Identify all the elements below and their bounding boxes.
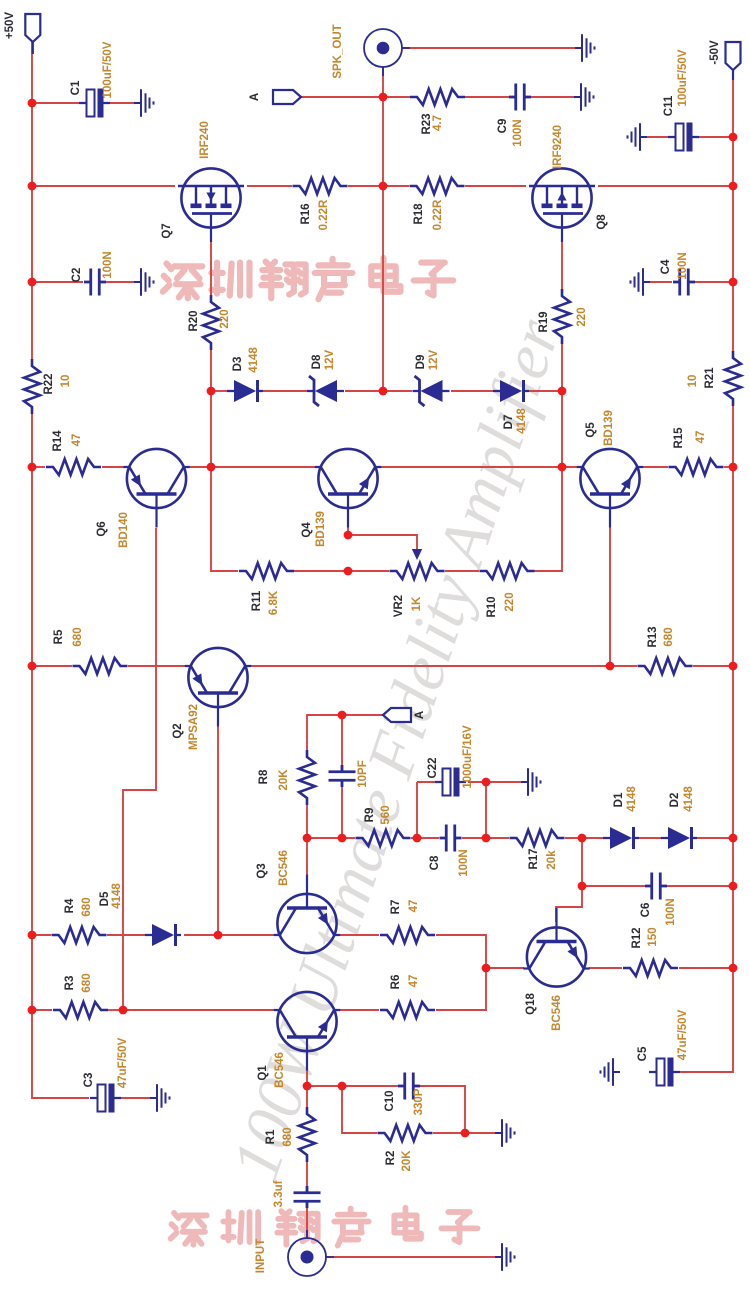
svg-text:12V: 12V xyxy=(428,349,440,370)
wire R8 top / node A2 xyxy=(307,715,383,750)
svg-text:R19: R19 xyxy=(538,311,550,332)
resistor R13 xyxy=(638,658,693,674)
MOSFET Q8 xyxy=(529,168,595,242)
junction xyxy=(28,278,37,287)
wire xyxy=(411,837,439,839)
svg-text:R11: R11 xyxy=(251,590,263,611)
wire xyxy=(32,466,45,468)
capacitor C7 input 3.3uf xyxy=(294,1186,321,1208)
svg-text:330P: 330P xyxy=(413,1088,425,1115)
svg-text:10: 10 xyxy=(687,375,699,388)
svg-text:R5: R5 xyxy=(53,629,65,644)
svg-text:C8: C8 xyxy=(429,855,441,870)
junction xyxy=(338,711,347,720)
wire xyxy=(417,781,436,783)
wire xyxy=(451,390,493,392)
diode D5 xyxy=(145,924,181,946)
svg-text:D2: D2 xyxy=(669,793,681,808)
port A (lower) xyxy=(383,708,411,722)
svg-text:4148: 4148 xyxy=(516,408,528,434)
svg-text:D7: D7 xyxy=(503,415,515,430)
resistor R6 xyxy=(380,1002,435,1018)
junction xyxy=(729,278,738,287)
junction xyxy=(28,1006,37,1015)
wire xyxy=(32,1009,52,1011)
wire xyxy=(306,1057,308,1107)
wire xyxy=(486,781,528,783)
wire Q6 base to node xyxy=(123,528,156,1010)
svg-text:BC546: BC546 xyxy=(551,995,563,1031)
junction xyxy=(338,1082,347,1091)
junction xyxy=(606,662,615,671)
wire xyxy=(445,570,479,572)
ground near C22 xyxy=(521,768,541,796)
wire xyxy=(211,390,227,392)
svg-text:20K: 20K xyxy=(401,1150,413,1172)
resistor R5 xyxy=(73,658,128,674)
svg-text:680: 680 xyxy=(282,1127,294,1146)
svg-text:BD139: BD139 xyxy=(603,410,615,446)
capacitor C1 xyxy=(79,89,110,118)
svg-text:47: 47 xyxy=(695,431,707,444)
wire xyxy=(416,782,418,838)
wire xyxy=(247,185,292,187)
svg-text:Q5: Q5 xyxy=(585,422,597,438)
diode D1 xyxy=(603,827,639,849)
svg-text:150: 150 xyxy=(647,927,659,946)
wire xyxy=(465,185,526,187)
transistor Q6 xyxy=(123,449,189,528)
svg-text:BD140: BD140 xyxy=(118,512,130,548)
zener diode D8 xyxy=(307,376,344,406)
svg-text:C22: C22 xyxy=(427,757,439,778)
transistor Q1 xyxy=(274,992,340,1071)
svg-text:INPUT: INPUT xyxy=(255,1239,267,1274)
wire xyxy=(341,715,343,765)
svg-text:R4: R4 xyxy=(64,898,76,913)
zener diode D9 xyxy=(413,376,450,406)
junction xyxy=(119,1006,128,1015)
capacitor C22 xyxy=(435,768,466,797)
diode D3 xyxy=(227,380,263,402)
transistor Q3 xyxy=(274,875,340,954)
capacitor C3 xyxy=(90,1084,121,1113)
svg-text:R22: R22 xyxy=(43,373,55,394)
wire INPUT to ground xyxy=(325,1256,498,1258)
svg-text:Q8: Q8 xyxy=(596,214,608,230)
resistor R22 xyxy=(24,359,40,414)
svg-text:Q3: Q3 xyxy=(256,863,268,878)
svg-text:C5: C5 xyxy=(637,1046,649,1061)
svg-text:47uF/50V: 47uF/50V xyxy=(117,1037,129,1088)
svg-text:D9: D9 xyxy=(415,355,427,370)
svg-text:220: 220 xyxy=(504,592,516,611)
resistor R3 xyxy=(53,1002,108,1018)
svg-text:47: 47 xyxy=(71,434,83,447)
resistor R1 xyxy=(299,1107,315,1162)
junction xyxy=(303,1082,312,1091)
wire xyxy=(342,1086,377,1133)
svg-text:D1: D1 xyxy=(613,792,625,807)
svg-text:R20: R20 xyxy=(188,310,200,331)
wire xyxy=(184,934,275,936)
wire xyxy=(697,837,733,839)
svg-text:680: 680 xyxy=(72,627,84,646)
wire xyxy=(436,935,486,1010)
resistor VR2 xyxy=(390,563,445,579)
wire xyxy=(110,102,141,104)
svg-text:4.7: 4.7 xyxy=(432,115,444,131)
wire xyxy=(106,281,141,283)
svg-text:Q4: Q4 xyxy=(301,522,313,538)
svg-text:1000uF/16V: 1000uF/16V xyxy=(462,725,474,789)
wire xyxy=(732,70,734,351)
capacitor C9 xyxy=(509,84,531,111)
svg-text:R8: R8 xyxy=(258,769,270,784)
junction xyxy=(578,882,587,891)
wire xyxy=(561,242,563,289)
wire xyxy=(345,390,412,392)
wire xyxy=(589,967,622,969)
wire xyxy=(306,838,308,881)
svg-text:C2: C2 xyxy=(71,268,83,283)
junction xyxy=(482,964,491,973)
resistor R18 xyxy=(410,178,465,194)
resistor R16 xyxy=(293,178,348,194)
junction xyxy=(461,1129,470,1138)
svg-text:R17: R17 xyxy=(528,848,540,869)
svg-text:-50V: -50V xyxy=(709,40,721,65)
svg-text:Q1: Q1 xyxy=(257,1065,269,1081)
wire xyxy=(534,344,562,571)
capacitor C8 xyxy=(440,825,462,852)
resistor R2 xyxy=(378,1125,433,1141)
svg-text:C3: C3 xyxy=(83,1073,95,1088)
transistor Q4 xyxy=(315,449,381,528)
wire xyxy=(32,281,83,283)
svg-text:R3: R3 xyxy=(64,976,76,991)
wire xyxy=(341,787,343,838)
ground near C11 xyxy=(628,123,648,151)
svg-text:47: 47 xyxy=(408,975,420,988)
svg-text:C11: C11 xyxy=(663,95,675,116)
resistor R19 xyxy=(554,289,570,344)
junction xyxy=(558,387,567,396)
port A (top) xyxy=(273,90,301,104)
wire VR2 wiper xyxy=(348,535,417,552)
power terminal +50V xyxy=(25,14,40,54)
svg-text:C10: C10 xyxy=(384,1090,396,1111)
svg-text:D8: D8 xyxy=(311,354,323,369)
svg-text:C6: C6 xyxy=(640,903,652,918)
svg-text:R7: R7 xyxy=(390,900,402,915)
svg-text:220: 220 xyxy=(219,309,231,328)
svg-text:4148: 4148 xyxy=(111,883,123,909)
resistor R14 xyxy=(46,459,101,475)
wire xyxy=(639,837,661,839)
svg-text:20k: 20k xyxy=(546,850,558,870)
wire xyxy=(189,466,316,468)
svg-text:IRF9240: IRF9240 xyxy=(552,125,564,169)
svg-text:R1: R1 xyxy=(265,1129,277,1144)
resistor R21 xyxy=(725,351,741,406)
svg-text:C9: C9 xyxy=(497,119,509,134)
junction xyxy=(344,567,353,576)
wire xyxy=(468,781,486,783)
capacitor C10 xyxy=(398,1073,420,1100)
junction xyxy=(28,99,37,108)
junction xyxy=(214,931,223,940)
svg-text:4148: 4148 xyxy=(626,786,638,812)
resistor R8 xyxy=(299,750,315,805)
svg-text:680: 680 xyxy=(81,973,93,992)
svg-text:R9: R9 xyxy=(364,808,376,823)
resistor R17 xyxy=(510,830,565,846)
wire xyxy=(128,665,186,667)
wire Q5 base down xyxy=(609,522,611,666)
resistor R11 xyxy=(239,563,294,579)
wire xyxy=(340,934,379,936)
transistor Q18 xyxy=(523,908,589,987)
resistor R4 xyxy=(52,927,107,943)
wire xyxy=(465,96,509,98)
svg-text:BC546: BC546 xyxy=(278,850,290,886)
svg-text:100N: 100N xyxy=(102,251,114,279)
svg-text:680: 680 xyxy=(663,627,675,646)
svg-text:C1: C1 xyxy=(70,80,82,95)
transistor Q2 xyxy=(185,648,251,727)
transistor Q5 xyxy=(577,449,643,528)
wire xyxy=(102,466,124,468)
capacitor C11 xyxy=(668,123,699,152)
junction xyxy=(482,778,491,787)
wire xyxy=(486,967,524,969)
svg-text:BD139: BD139 xyxy=(315,511,327,547)
svg-text:4148: 4148 xyxy=(248,347,260,373)
svg-text:A: A xyxy=(414,711,426,719)
svg-text:C4: C4 xyxy=(660,259,672,274)
wire xyxy=(485,782,487,838)
VR2 wiper arrow xyxy=(412,549,422,560)
resistor R7 xyxy=(380,927,435,943)
svg-text:Q6: Q6 xyxy=(96,521,108,536)
wire xyxy=(32,102,79,104)
wire xyxy=(121,1097,157,1099)
svg-text:1K: 1K xyxy=(411,596,423,611)
resistor R20 xyxy=(203,295,219,350)
wire xyxy=(420,1086,465,1133)
connector SPK_OUT xyxy=(364,29,410,76)
wire xyxy=(211,350,238,571)
svg-text:47uF/50V: 47uF/50V xyxy=(677,1009,689,1060)
ground near SPK_OUT xyxy=(575,34,595,62)
wire xyxy=(306,1208,308,1239)
wire SPK_OUT to ground xyxy=(401,47,582,49)
wire xyxy=(306,805,308,838)
svg-text:R10: R10 xyxy=(486,596,498,617)
junction xyxy=(413,834,422,843)
wire xyxy=(294,570,389,572)
wire xyxy=(433,1132,502,1134)
svg-text:220: 220 xyxy=(576,307,588,326)
wire Q18 base up xyxy=(556,886,582,922)
junction xyxy=(729,133,738,142)
wire xyxy=(340,1009,379,1011)
svg-text:4148: 4148 xyxy=(683,786,695,812)
power terminal -50V xyxy=(726,42,741,80)
wire xyxy=(695,281,733,283)
wire xyxy=(667,885,733,887)
svg-text:10: 10 xyxy=(60,375,72,388)
junction xyxy=(207,387,216,396)
wire xyxy=(108,1009,123,1011)
wire xyxy=(123,1009,275,1011)
ground near C2 xyxy=(134,268,154,296)
svg-text:+50V: +50V xyxy=(4,12,16,40)
wire Q2 base down xyxy=(217,708,219,935)
wire xyxy=(307,1085,398,1087)
wire xyxy=(307,837,355,839)
junction xyxy=(729,662,738,671)
junction xyxy=(207,463,216,472)
svg-text:D3: D3 xyxy=(232,357,244,372)
wire xyxy=(699,136,733,138)
svg-text:R15: R15 xyxy=(673,427,685,449)
junction xyxy=(338,834,347,843)
svg-text:A: A xyxy=(249,93,261,101)
junction xyxy=(28,463,37,472)
junction xyxy=(303,834,312,843)
svg-text:6.8K: 6.8K xyxy=(268,590,280,615)
capacitor C6 xyxy=(645,873,667,900)
wire xyxy=(32,665,72,667)
junction xyxy=(482,834,491,843)
wire node A to output rail xyxy=(301,96,410,98)
junction xyxy=(28,662,37,671)
svg-text:100uF/50V: 100uF/50V xyxy=(677,49,689,106)
wire xyxy=(531,96,581,98)
svg-text:100N: 100N xyxy=(458,849,470,877)
svg-text:Q2: Q2 xyxy=(172,723,184,738)
wire xyxy=(724,466,733,468)
svg-text:R2: R2 xyxy=(385,1151,397,1166)
junction xyxy=(28,931,37,940)
svg-text:R21: R21 xyxy=(704,367,716,389)
wire xyxy=(250,665,637,667)
ground near C9 xyxy=(574,83,594,111)
svg-text:R14: R14 xyxy=(52,430,64,452)
wire xyxy=(32,934,51,936)
svg-text:100N: 100N xyxy=(512,119,524,147)
junction xyxy=(729,182,738,191)
junction xyxy=(729,964,738,973)
capacitor C4 xyxy=(673,269,695,296)
junction xyxy=(28,182,37,191)
junction xyxy=(379,387,388,396)
svg-text:R12: R12 xyxy=(631,927,643,948)
wire xyxy=(680,406,733,1072)
resistor R10 xyxy=(480,563,535,579)
svg-text:VR2: VR2 xyxy=(393,595,405,617)
wire xyxy=(582,838,645,886)
MOSFET Q7 xyxy=(178,168,244,242)
wire xyxy=(679,967,733,969)
resistor R15 xyxy=(669,459,724,475)
wire xyxy=(347,522,349,535)
wire xyxy=(381,466,577,468)
wire xyxy=(565,837,603,839)
svg-text:R16: R16 xyxy=(300,203,312,224)
junction xyxy=(379,93,388,102)
capacitor C 10PF xyxy=(329,765,356,787)
diode D2 xyxy=(661,827,697,849)
wire xyxy=(642,466,668,468)
wire xyxy=(306,1162,308,1186)
junction xyxy=(344,531,353,540)
svg-text:10PF: 10PF xyxy=(357,760,369,788)
wire xyxy=(107,934,145,936)
wire xyxy=(32,185,175,187)
junction xyxy=(558,463,567,472)
junction xyxy=(729,882,738,891)
svg-text:560: 560 xyxy=(380,805,392,824)
wire xyxy=(32,414,89,1098)
ground near C3 xyxy=(150,1084,170,1112)
svg-text:100N: 100N xyxy=(665,898,677,926)
ground near R2 xyxy=(495,1119,515,1147)
junction xyxy=(729,834,738,843)
wire xyxy=(643,281,672,283)
connector INPUT xyxy=(288,1230,334,1276)
resistor R9 xyxy=(356,830,411,846)
svg-text:D5: D5 xyxy=(99,891,111,906)
junction xyxy=(578,834,587,843)
ground near C1 xyxy=(134,89,154,117)
resistor R12 xyxy=(623,960,678,976)
svg-text:12V: 12V xyxy=(324,349,336,370)
junction xyxy=(379,182,388,191)
svg-text:BC546: BC546 xyxy=(274,1052,286,1088)
svg-text:Q18: Q18 xyxy=(525,993,537,1015)
wire xyxy=(462,837,509,839)
wire xyxy=(598,185,733,187)
wire xyxy=(263,390,307,392)
svg-text:20K: 20K xyxy=(278,769,290,791)
ground near C5 xyxy=(601,1058,621,1086)
ground near INPUT xyxy=(495,1243,515,1271)
wire xyxy=(210,242,212,295)
capacitor C5 xyxy=(649,1058,680,1087)
svg-text:0.22R: 0.22R xyxy=(432,199,444,230)
wire xyxy=(348,185,409,187)
svg-text:100uF/50V: 100uF/50V xyxy=(102,41,114,98)
diode D7 xyxy=(493,380,529,402)
svg-text:680: 680 xyxy=(81,897,93,916)
svg-text:MPSA92: MPSA92 xyxy=(188,704,200,750)
resistor R23 xyxy=(410,89,465,105)
svg-text:IRF240: IRF240 xyxy=(199,121,211,159)
ground near C4 xyxy=(631,268,651,296)
wire xyxy=(640,136,668,138)
junction xyxy=(729,463,738,472)
svg-text:47: 47 xyxy=(408,900,420,913)
svg-text:Q7: Q7 xyxy=(161,223,173,238)
wire xyxy=(693,665,733,667)
wire xyxy=(31,42,33,359)
svg-text:100N: 100N xyxy=(677,252,689,280)
svg-text:0.22R: 0.22R xyxy=(318,199,330,230)
wire xyxy=(382,66,384,391)
